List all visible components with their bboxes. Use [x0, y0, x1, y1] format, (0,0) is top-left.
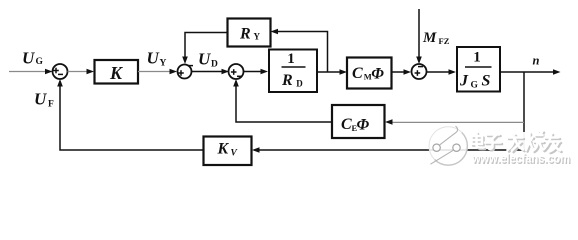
block KV [204, 137, 252, 166]
svg-text:F: F [48, 100, 54, 110]
watermark logo elecfans [429, 126, 467, 165]
wire RD to CM block with branch node [317, 69, 347, 75]
svg-text:Y: Y [160, 59, 167, 69]
svg-text:C: C [352, 65, 363, 82]
svg-text:K: K [217, 141, 230, 158]
block RY [228, 19, 271, 47]
label U_G [22, 49, 44, 68]
svg-text:R: R [281, 72, 293, 89]
svg-text:Φ: Φ [357, 116, 370, 133]
block 1/JGS [457, 47, 500, 92]
svg-text:D: D [296, 78, 303, 88]
svg-text:U: U [198, 50, 211, 69]
wire n branch to CE block [385, 119, 524, 125]
svg-text:M: M [422, 30, 437, 46]
block CE [332, 105, 385, 138]
svg-text:D: D [211, 60, 218, 70]
summing junction S4 [412, 64, 427, 79]
svg-text:G: G [471, 80, 479, 90]
wire RY to S2 [182, 33, 227, 65]
label U_Y [147, 49, 167, 69]
wire S2 to S3 [192, 69, 230, 75]
svg-text:1: 1 [473, 50, 481, 66]
svg-text:Y: Y [254, 31, 261, 41]
svg-text:U: U [34, 90, 47, 109]
wire input U_G [9, 69, 53, 75]
block 1/RD [269, 50, 317, 93]
svg-text:1: 1 [287, 51, 295, 67]
svg-text:U: U [22, 49, 35, 68]
wire n branch to KV block [252, 147, 524, 153]
wire CE to S3 [233, 79, 332, 122]
svg-text:C: C [341, 116, 352, 133]
summing junction S1 [53, 64, 68, 79]
block K [95, 60, 139, 84]
wire KV to S1 [57, 79, 203, 150]
svg-text:S: S [482, 73, 491, 90]
svg-text:R: R [239, 26, 251, 43]
svg-text:U: U [147, 49, 160, 68]
label U_F [34, 90, 54, 110]
wire K to S2 [138, 69, 177, 75]
wire output n with branch [500, 69, 561, 150]
wire S4 to block 1/JGS [427, 69, 457, 75]
svg-text:Φ: Φ [371, 65, 384, 82]
summing junction S3 [229, 64, 244, 79]
svg-text:n: n [533, 54, 540, 68]
svg-text:V: V [231, 149, 238, 159]
wire branch up to RY feedback [271, 29, 328, 72]
label U_D [198, 50, 218, 70]
block CM [347, 58, 392, 89]
svg-text:www.elecfans.com: www.elecfans.com [471, 152, 570, 166]
svg-text:K: K [109, 63, 124, 83]
wire M_FZ into S4 [416, 9, 422, 64]
svg-text:J: J [459, 73, 469, 90]
wire CM to S4 [392, 69, 412, 75]
wire S3 to block 1/RD [244, 69, 269, 75]
svg-text:G: G [36, 57, 44, 67]
watermark url text [471, 152, 571, 167]
watermark chinese text [520, 132, 528, 150]
label M_FZ [422, 30, 450, 46]
svg-text:FZ: FZ [439, 36, 450, 46]
wire S1 to K [68, 69, 95, 75]
summing junction S2 [178, 65, 194, 79]
